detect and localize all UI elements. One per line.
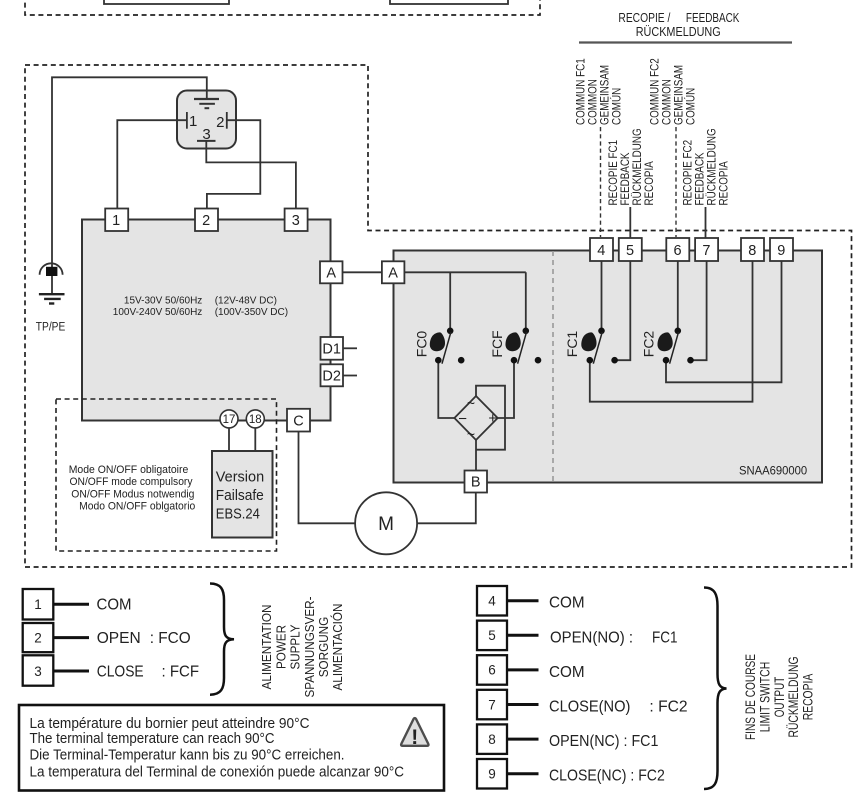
svg-text:SUPPLY: SUPPLY (288, 624, 303, 669)
svg-text:OUTPUT: OUTPUT (772, 677, 787, 718)
svg-text:Die Terminal-Temperatur kann b: Die Terminal-Temperatur kann bis zu 90°C… (30, 746, 345, 763)
svg-text:POWER: POWER (273, 625, 288, 669)
svg-text:9: 9 (777, 243, 785, 259)
svg-text:~: ~ (467, 426, 475, 442)
svg-text:CLOSE(NC) : FC2: CLOSE(NC) : FC2 (549, 768, 665, 785)
svg-text:SORGUNG: SORGUNG (316, 617, 331, 678)
svg-text:100V-240V 50/60Hz: 100V-240V 50/60Hz (113, 307, 203, 318)
svg-text:FC2: FC2 (641, 331, 657, 358)
svg-text:5: 5 (626, 243, 634, 259)
svg-text:FEEDBACK: FEEDBACK (686, 11, 740, 25)
svg-text:1: 1 (189, 113, 197, 130)
svg-text:A: A (388, 266, 398, 282)
svg-text:RECOPIA: RECOPIA (717, 161, 731, 205)
svg-text:: FC2: : FC2 (649, 699, 687, 716)
svg-text:7: 7 (488, 697, 496, 712)
svg-text:3: 3 (34, 664, 42, 679)
svg-text:TP/PE: TP/PE (36, 319, 66, 333)
svg-text:17: 17 (223, 414, 236, 426)
svg-text:CLOSE(NO): CLOSE(NO) (549, 699, 630, 716)
svg-text:C: C (293, 413, 303, 429)
svg-text:FCF: FCF (489, 330, 505, 357)
svg-text:Failsafe: Failsafe (216, 488, 264, 504)
svg-text:OPEN(NO) :: OPEN(NO) : (550, 629, 633, 646)
svg-text:D2: D2 (322, 369, 341, 385)
svg-text:RECOPIA: RECOPIA (800, 674, 815, 721)
svg-text:2: 2 (202, 213, 210, 229)
svg-text:ON/OFF mode compulsory: ON/OFF mode compulsory (70, 476, 193, 488)
svg-text:OPEN: OPEN (97, 630, 141, 647)
svg-text:B: B (471, 475, 481, 491)
svg-text:ALIMENTATION: ALIMENTATION (259, 605, 274, 690)
svg-text:15V-30V 50/60Hz: 15V-30V 50/60Hz (124, 296, 202, 307)
svg-text:3: 3 (292, 213, 300, 229)
svg-text:: FCF: : FCF (162, 664, 200, 681)
svg-text:FC1: FC1 (652, 629, 678, 646)
svg-text:Version: Version (216, 470, 264, 486)
svg-text:!: ! (411, 726, 418, 749)
svg-text:EBS.24: EBS.24 (216, 506, 260, 522)
svg-text:2: 2 (216, 114, 224, 131)
svg-text:2: 2 (34, 630, 42, 645)
svg-text:(12V-48V DC): (12V-48V DC) (215, 296, 277, 307)
svg-text:: FCO: : FCO (150, 630, 191, 647)
svg-text:1: 1 (34, 597, 42, 612)
svg-text:RECOPIE /: RECOPIE / (618, 11, 670, 25)
svg-text:~: ~ (467, 395, 475, 411)
svg-text:Mode ON/OFF obligatoire: Mode ON/OFF obligatoire (69, 464, 189, 476)
svg-text:Modo ON/OFF oblgatorio: Modo ON/OFF oblgatorio (79, 500, 195, 512)
svg-text:LIMIT SWITCH: LIMIT SWITCH (758, 662, 773, 733)
svg-text:COM: COM (549, 595, 585, 612)
svg-text:5: 5 (488, 628, 496, 643)
svg-text:−: − (458, 411, 467, 428)
svg-text:A: A (326, 266, 336, 282)
svg-text:(100V-350V DC): (100V-350V DC) (215, 307, 288, 318)
svg-text:D1: D1 (322, 342, 341, 358)
svg-text:CLOSE: CLOSE (97, 664, 144, 681)
svg-text:FC1: FC1 (564, 331, 580, 358)
svg-text:7: 7 (702, 243, 710, 259)
svg-text:RECOPIA: RECOPIA (642, 161, 656, 205)
svg-text:3: 3 (202, 126, 210, 143)
svg-text:9: 9 (488, 767, 496, 782)
svg-text:SNAA690000: SNAA690000 (739, 464, 807, 478)
svg-text:The terminal temperature can r: The terminal temperature can reach 90°C (30, 730, 275, 747)
svg-text:RÜCKMELDUNG: RÜCKMELDUNG (786, 657, 801, 738)
svg-text:6: 6 (674, 243, 682, 259)
svg-text:OPEN(NC) : FC1: OPEN(NC) : FC1 (549, 733, 658, 750)
svg-text:+: + (488, 410, 497, 427)
svg-text:COM: COM (549, 664, 585, 681)
svg-text:FC0: FC0 (414, 331, 430, 358)
svg-text:8: 8 (748, 243, 756, 259)
svg-text:1: 1 (112, 213, 120, 229)
svg-text:SPANNUNGSVER-: SPANNUNGSVER- (302, 597, 317, 698)
svg-text:4: 4 (597, 243, 605, 259)
svg-text:4: 4 (488, 594, 496, 609)
svg-text:ALIMENTACIÓN: ALIMENTACIÓN (330, 604, 345, 691)
svg-text:RÜCKMELDUNG: RÜCKMELDUNG (636, 25, 721, 39)
svg-text:6: 6 (488, 663, 496, 678)
svg-text:8: 8 (488, 732, 496, 747)
svg-text:COMÚN: COMÚN (609, 88, 624, 125)
svg-text:18: 18 (249, 414, 262, 426)
svg-text:FINS DE COURSE: FINS DE COURSE (743, 654, 758, 740)
svg-text:ON/OFF Modus notwendig: ON/OFF Modus notwendig (71, 488, 194, 500)
svg-text:La temperatura del Terminal de: La temperatura del Terminal de conexión … (30, 764, 405, 781)
svg-text:COMÚN: COMÚN (683, 88, 698, 125)
svg-text:COM: COM (97, 596, 132, 613)
svg-text:M: M (378, 514, 394, 535)
